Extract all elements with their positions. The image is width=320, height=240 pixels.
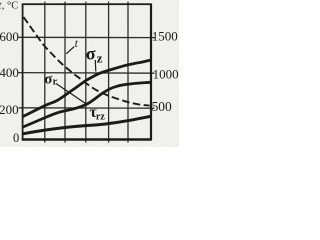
svg-text:σ: σ bbox=[86, 43, 96, 63]
horizontal grid line y=107.8 (200C / 500) bbox=[19, 107, 155, 109]
svg-text:600: 600 bbox=[0, 29, 19, 44]
svg-text:, °C: , °C bbox=[2, 0, 18, 11]
svg-text:z: z bbox=[97, 51, 103, 66]
horizontal grid line y=37.3 (600C / 1500) bbox=[19, 36, 155, 38]
pointer line to t curve bbox=[66, 47, 74, 54]
vertical grid line x=108.6 bbox=[108, 2, 110, 143]
sigma_z curve bbox=[23, 60, 151, 117]
svg-text:1500: 1500 bbox=[152, 28, 178, 43]
svg-text:1000: 1000 bbox=[153, 67, 179, 82]
vertical grid line x=128 bbox=[127, 2, 129, 143]
svg-text:200: 200 bbox=[0, 102, 19, 117]
vertical grid line x=65 bbox=[64, 2, 66, 143]
tau_rz curve bbox=[23, 116, 151, 134]
vertical grid line x=44.8 bbox=[44, 2, 46, 143]
dashed temperature curve t bbox=[24, 17, 150, 106]
pointer line from sigma_r label to curve bbox=[56, 84, 87, 105]
paper background bbox=[0, 0, 179, 147]
right border (thicker) bbox=[150, 4, 152, 140]
vertical grid line x=85.8 bbox=[85, 2, 87, 143]
pointer line from sigma_z label to curve bbox=[94, 60, 97, 72]
plot border box bbox=[23, 4, 151, 139]
svg-text:r: r bbox=[53, 76, 58, 87]
svg-text:400: 400 bbox=[0, 65, 19, 80]
svg-text:0: 0 bbox=[13, 131, 19, 145]
svg-text:500: 500 bbox=[152, 99, 172, 114]
svg-text:rz: rz bbox=[96, 112, 105, 123]
sigma_r curve bbox=[23, 82, 151, 127]
bottom border (thicker) bbox=[22, 138, 152, 140]
horizontal grid line y=72.8 (400C / 1000) bbox=[19, 72, 155, 75]
